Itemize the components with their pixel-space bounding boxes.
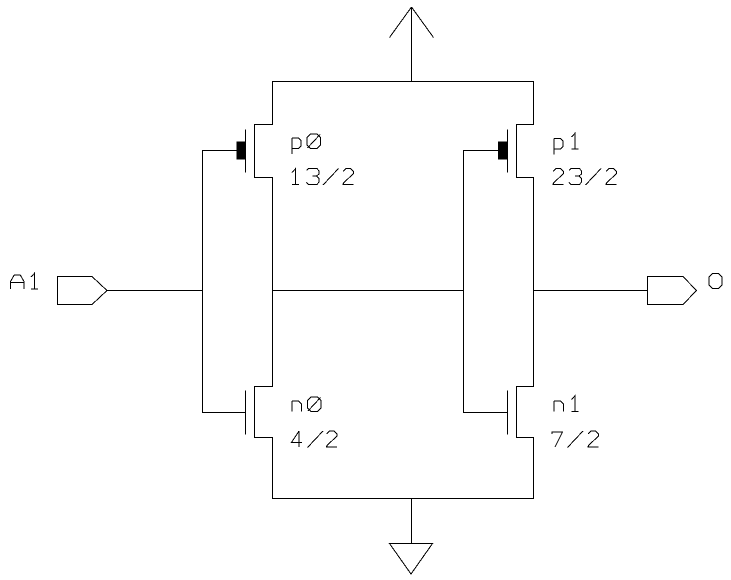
label A1	[11, 273, 39, 289]
wire top rail	[272, 81, 534, 83]
label 4/2	[292, 431, 338, 448]
label n1	[554, 396, 579, 412]
pin O	[648, 277, 697, 305]
transistor n1 (nmos)	[463, 386, 534, 438]
wire stage1 gate column	[202, 150, 204, 413]
label p1	[554, 133, 579, 154]
label 13/2	[292, 169, 354, 186]
wire output	[533, 290, 648, 292]
label 23/2	[553, 169, 617, 186]
transistor n0 (nmos)	[202, 386, 273, 438]
label O	[709, 274, 722, 289]
transistor p1 (pmos)	[463, 124, 534, 178]
wire mid node	[272, 290, 464, 292]
vdd symbol	[390, 7, 434, 82]
wire stage1 drain column	[272, 81, 274, 499]
label p0	[292, 134, 321, 154]
wire bottom rail	[272, 498, 534, 500]
ground	[390, 498, 433, 574]
wire stage2 gate column	[463, 150, 465, 413]
wire input	[107, 290, 204, 292]
label 7/2	[552, 431, 599, 448]
pin A1	[58, 277, 108, 305]
label n0	[292, 397, 321, 412]
wire stage2 drain column	[533, 81, 535, 499]
transistor p0 (pmos)	[202, 124, 273, 178]
